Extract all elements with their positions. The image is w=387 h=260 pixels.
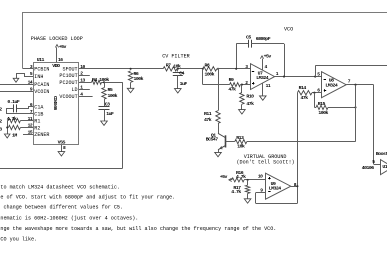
svg-text:1uF: 1uF — [180, 81, 188, 87]
svg-text:R9: R9 — [229, 77, 234, 83]
svg-text:R5: R5 — [108, 87, 113, 93]
svg-text:4.7k: 4.7k — [7, 116, 17, 122]
svg-text:R14: R14 — [299, 85, 307, 91]
svg-text:nge the waveshape more towards: nge the waveshape more towards a saw, bu… — [0, 226, 276, 232]
svg-text:CO you like.: CO you like. — [0, 237, 37, 243]
svg-text:R11: R11 — [204, 111, 212, 117]
svg-text:LM324: LM324 — [269, 186, 282, 192]
svg-text:+5v: +5v — [264, 53, 272, 59]
svg-text:LM324: LM324 — [256, 75, 269, 81]
svg-text:SFOUT: SFOUT — [62, 67, 77, 73]
svg-text:40106: 40106 — [362, 165, 375, 171]
svg-text:change between different value: change between different values for C5. — [0, 205, 123, 211]
svg-text:U10: U10 — [382, 164, 387, 170]
svg-text:47k: 47k — [301, 95, 309, 101]
svg-text:LD: LD — [72, 87, 78, 93]
svg-text:CV FILTER: CV FILTER — [162, 53, 190, 59]
svg-text:11: 11 — [266, 83, 271, 89]
svg-text:16: 16 — [58, 57, 63, 63]
svg-text:6800pF: 6800pF — [256, 36, 271, 42]
svg-text:10: 10 — [80, 64, 85, 70]
svg-text:PC1OUT: PC1OUT — [59, 73, 77, 79]
svg-text:100k: 100k — [99, 77, 109, 83]
svg-text:10k: 10k — [237, 143, 245, 149]
svg-text:R8: R8 — [205, 62, 210, 68]
svg-text:4.7k: 4.7k — [236, 174, 246, 180]
svg-text:ZENER: ZENER — [34, 132, 49, 138]
svg-text:R15: R15 — [318, 101, 326, 107]
svg-text:100k: 100k — [108, 93, 118, 99]
svg-text:R7: R7 — [166, 63, 171, 69]
svg-text:47k: 47k — [204, 117, 212, 123]
svg-text:PC2OUT: PC2OUT — [59, 80, 77, 86]
svg-text:VCOOUT: VCOOUT — [59, 94, 77, 100]
svg-text:INH: INH — [34, 74, 43, 80]
svg-text:to match LM324 datasheet VCO s: to match LM324 datasheet VCO schematic. — [0, 184, 120, 190]
svg-text:R1: R1 — [34, 118, 40, 124]
svg-text:1uF: 1uF — [106, 111, 114, 117]
svg-text:PHASE LOCKED LOOP: PHASE LOCKED LOOP — [31, 36, 83, 42]
svg-text:100k: 100k — [205, 71, 215, 77]
svg-text:PCAIN: PCAIN — [34, 82, 49, 88]
svg-text:R2: R2 — [34, 125, 40, 131]
svg-text:C3: C3 — [105, 101, 110, 107]
svg-text:47k: 47k — [228, 86, 236, 92]
svg-text:47k: 47k — [246, 101, 254, 107]
svg-text:10: 10 — [258, 174, 263, 180]
svg-text:BC547: BC547 — [206, 136, 219, 142]
svg-text:+5v: +5v — [220, 174, 228, 180]
svg-text:C1B: C1B — [34, 112, 43, 118]
svg-text:C5: C5 — [246, 34, 251, 40]
svg-text:PCBIN: PCBIN — [34, 67, 49, 73]
svg-text:Boost: Boost — [376, 151, 387, 157]
svg-text:R4: R4 — [92, 77, 97, 83]
svg-text:nematic is 60Hz-1060Hz (just o: nematic is 60Hz-1060Hz (just over 4 octa… — [0, 215, 138, 221]
svg-text:VCOIN: VCOIN — [34, 89, 49, 95]
svg-text:C4: C4 — [179, 71, 184, 77]
svg-text:CD4046: CD4046 — [52, 96, 58, 111]
svg-text:LM324: LM324 — [325, 82, 338, 88]
svg-text:VCO: VCO — [284, 26, 293, 32]
svg-text:R13: R13 — [236, 135, 244, 141]
svg-text:100k: 100k — [318, 110, 328, 116]
svg-text:R10: R10 — [246, 94, 254, 100]
svg-text:1M: 1M — [12, 132, 17, 138]
svg-text:4.7k: 4.7k — [231, 189, 241, 195]
svg-text:(Don't tell Scott!): (Don't tell Scott!) — [237, 160, 295, 166]
svg-text:+5v: +5v — [59, 44, 67, 50]
svg-text:100k: 100k — [134, 76, 144, 82]
svg-text:VDD: VDD — [52, 63, 60, 69]
svg-text:0.1uF: 0.1uF — [7, 99, 20, 105]
svg-text:U11: U11 — [37, 57, 45, 63]
svg-text:e of VCO. Start with 6800pF an: e of VCO. Start with 6800pF and adjust t… — [0, 194, 175, 200]
svg-text:C1A: C1A — [34, 105, 44, 111]
